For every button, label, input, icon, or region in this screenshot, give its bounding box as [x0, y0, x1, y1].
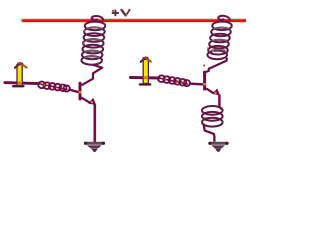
- inductor L3 (right emitter coil): [202, 106, 223, 127]
- node input right wire: [130, 76, 159, 79]
- wire L3 bottom lead to ground: [204, 124, 215, 142]
- inductor L4 (left base choke squiggle): [38, 82, 70, 92]
- transistor Q2 (right NPN): [203, 71, 206, 91]
- inductor L1 (left collector coil): [81, 16, 105, 65]
- power rail +V: [23, 18, 246, 23]
- ground (right): [208, 142, 228, 145]
- inductor L2 (right collector coil): [207, 16, 231, 59]
- input arrow left (yellow): [13, 85, 23, 87]
- wire L1 bottom lead to Q1 collector: [82, 65, 103, 85]
- input arrow right (yellow): [140, 83, 150, 85]
- wire Q1 emitter down: [94, 104, 97, 142]
- inductor L5 (right base choke squiggle): [158, 75, 190, 86]
- wire Q2 emitter down: [218, 95, 220, 108]
- ground (left): [84, 142, 105, 145]
- label +V: [113, 10, 130, 15]
- wire squiggle to Q2 base: [189, 82, 204, 85]
- wire L2 bottom lead to Q2 collector: [206, 58, 227, 72]
- transistor Q1 (left NPN): [79, 82, 82, 101]
- node input left wire: [5, 83, 39, 84]
- wire squiggle to Q1 base: [68, 89, 79, 92]
